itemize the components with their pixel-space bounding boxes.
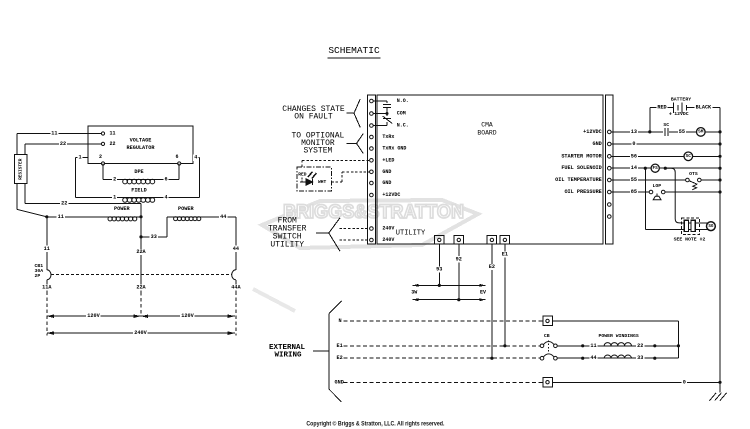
svg-text:Copyright © Briggs & Stratton,: Copyright © Briggs & Stratton, LLC. All … [306,420,444,428]
svg-text:120V: 120V [181,313,194,319]
svg-text:BATTERY: BATTERY [671,97,691,103]
svg-text:22: 22 [637,343,643,349]
svg-text:SG: SG [708,224,714,229]
svg-text:N.O.: N.O. [397,98,409,104]
svg-text:22A: 22A [136,285,146,291]
svg-text:85: 85 [631,189,637,195]
svg-text:E2: E2 [489,264,495,270]
svg-text:TxRx GND: TxRx GND [382,146,406,152]
svg-text:22: 22 [61,200,67,206]
svg-text:RED: RED [657,105,666,111]
svg-text:BRIGGS&STRATTON: BRIGGS&STRATTON [283,202,464,223]
svg-text:POWER WINDINGS: POWER WINDINGS [598,333,638,339]
svg-text:44: 44 [590,355,596,361]
svg-text:22A: 22A [136,249,146,255]
svg-text:WIRING: WIRING [274,351,302,359]
svg-text:SEE NOTE #2: SEE NOTE #2 [674,236,706,242]
svg-text:11: 11 [58,214,64,220]
svg-text:TxRx: TxRx [382,134,394,140]
svg-text:33: 33 [637,355,643,361]
svg-text:6: 6 [175,154,178,160]
svg-text:0: 0 [683,379,686,385]
svg-text:BOARD: BOARD [477,130,496,137]
svg-text:E2: E2 [337,355,343,361]
svg-text:SCHEMATIC: SCHEMATIC [328,45,380,56]
svg-text:11: 11 [110,131,116,137]
svg-text:RED: RED [298,171,307,177]
svg-text:E1: E1 [502,251,508,257]
svg-text:2: 2 [113,176,116,182]
svg-text:11: 11 [44,246,50,252]
svg-text:+12VDC: +12VDC [583,129,602,135]
svg-text:EV: EV [480,289,486,295]
svg-text:VOLTAGE: VOLTAGE [130,138,152,144]
svg-text:REGULATOR: REGULATOR [126,145,155,151]
svg-text:OTS: OTS [689,171,698,177]
svg-text:LOP: LOP [652,183,661,189]
svg-text:+LED: +LED [382,157,394,163]
svg-text:COM: COM [397,111,406,117]
svg-text:RESISTER: RESISTER [18,158,23,179]
svg-text:WHT: WHT [318,179,327,185]
svg-text:ON FAULT: ON FAULT [294,113,333,122]
svg-text:14: 14 [631,165,637,171]
svg-text:22: 22 [110,141,116,147]
svg-text:POWER: POWER [114,206,130,212]
svg-text:0: 0 [632,141,635,147]
svg-text:13: 13 [631,129,637,135]
svg-text:44A: 44A [231,285,241,291]
svg-text:2P: 2P [35,273,41,279]
svg-text:FUEL SOLENOID: FUEL SOLENOID [561,165,601,171]
svg-text:OIL TEMPERATURE: OIL TEMPERATURE [555,177,602,183]
svg-text:+: + [669,112,672,118]
svg-text:2: 2 [99,154,102,160]
svg-text:4: 4 [165,195,168,201]
svg-text:33: 33 [151,234,157,240]
svg-text:SYSTEM: SYSTEM [303,147,332,156]
svg-text:UTILITY: UTILITY [270,240,304,249]
svg-text:56: 56 [631,153,637,159]
svg-text:OIL PRESSURE: OIL PRESSURE [564,189,601,195]
svg-text:55: 55 [679,129,685,135]
svg-text:55: 55 [631,177,637,183]
svg-text:GND: GND [335,379,344,385]
svg-text:SC: SC [686,154,692,159]
svg-text:FS: FS [653,166,659,171]
svg-text:11: 11 [51,131,57,137]
svg-text:CMA: CMA [481,121,493,128]
svg-text:44: 44 [220,214,226,220]
svg-text:SM: SM [698,130,704,135]
svg-text:N: N [339,318,342,324]
svg-text:3W: 3W [411,289,417,295]
svg-text:11: 11 [590,343,596,349]
svg-text:N.C.: N.C. [397,123,409,129]
svg-text:BLACK: BLACK [696,105,712,111]
svg-text:GND: GND [382,180,391,186]
svg-text:120V: 120V [87,313,100,319]
svg-text:+12VDC: +12VDC [382,192,400,198]
svg-text:CB: CB [544,333,550,339]
svg-text:240V: 240V [382,237,394,243]
svg-text:STARTER MOTOR: STARTER MOTOR [561,153,602,159]
svg-text:FIELD: FIELD [131,188,147,194]
svg-text:GND: GND [382,169,391,175]
svg-text:240V: 240V [134,330,147,336]
svg-text:22: 22 [60,141,66,147]
svg-text:240V: 240V [382,226,394,232]
svg-text:DPE: DPE [134,169,143,175]
svg-text:44: 44 [233,246,239,252]
svg-text:4: 4 [194,155,197,161]
svg-text:12VDC: 12VDC [674,111,689,117]
svg-text:1: 1 [113,195,116,201]
svg-text:E1: E1 [337,343,343,349]
svg-text:93: 93 [436,267,442,273]
svg-text:11A: 11A [42,284,52,290]
svg-text:92: 92 [456,256,462,262]
svg-text:SC: SC [663,122,669,128]
svg-text:UTILITY: UTILITY [396,230,426,238]
svg-text:1: 1 [78,155,81,161]
svg-text:POWER: POWER [178,206,194,212]
svg-text:6: 6 [165,176,168,182]
svg-text:GND: GND [592,141,601,147]
